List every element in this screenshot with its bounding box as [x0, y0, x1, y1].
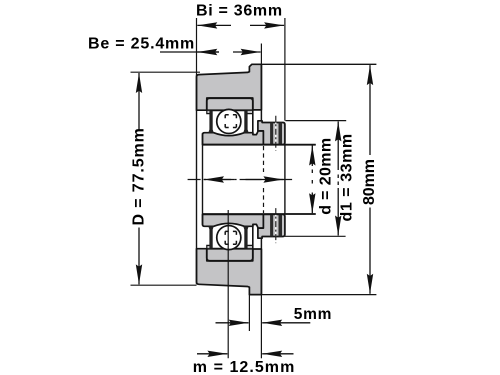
Be dimension line [160, 51, 261, 53]
seal upper left [208, 111, 213, 133]
Bi extension line left [196, 18, 198, 75]
collar silhouette through bore [284, 145, 286, 215]
Bi dimension line [197, 24, 284, 26]
5mm extension line left [248, 295, 250, 331]
svg-text:m = 12.5mm: m = 12.5mm [193, 359, 296, 375]
inner ring lower [203, 214, 264, 228]
Be extension line right [260, 44, 262, 65]
d1 extension lines [286, 120, 347, 122]
D dimension line [138, 73, 140, 284]
m extension line left (ball axis) [227, 210, 229, 358]
flange right face line [260, 64, 262, 120]
seal lower left [208, 227, 213, 249]
seal upper right [243, 111, 248, 133]
bore line lower [203, 213, 316, 215]
seal lower right [243, 227, 248, 249]
m dimension line [197, 353, 294, 355]
housing lower half [197, 249, 262, 295]
ball upper [217, 109, 241, 133]
width arrows at centerline [204, 179, 283, 181]
centerline [188, 179, 293, 181]
Bi extension line right [284, 18, 286, 121]
svg-text:D = 77.5mm: D = 77.5mm [131, 127, 148, 225]
80mm extension lines [252, 63, 377, 65]
svg-text:80mm: 80mm [361, 159, 378, 205]
outer ring lower [207, 224, 253, 260]
svg-text:Bi = 36mm: Bi = 36mm [196, 3, 283, 20]
set screw axis lower [275, 214, 277, 236]
housing left face line [196, 75, 198, 285]
5mm dimension line [216, 322, 311, 324]
sleeve end hidden line [263, 146, 265, 172]
svg-text:5mm: 5mm [294, 306, 332, 323]
d dimension line [311, 146, 313, 214]
inner ring upper [203, 131, 264, 145]
inner ring left face line [202, 133, 204, 225]
d extension lines [286, 144, 316, 146]
svg-text:d = 20mm: d = 20mm [318, 138, 335, 215]
ball lower [217, 226, 241, 250]
svg-text:d1 = 33mm: d1 = 33mm [339, 133, 356, 221]
housing upper half [197, 64, 262, 110]
d1 dimension line [337, 121, 339, 235]
set screw axis upper [275, 123, 277, 145]
bore line upper [203, 144, 316, 146]
outer ring upper [207, 98, 253, 134]
80mm dimension line [369, 65, 371, 294]
svg-text:Be = 25.4mm: Be = 25.4mm [88, 36, 195, 53]
m / 5mm extension line right [260, 295, 262, 359]
D extension lines [131, 71, 201, 73]
locking collar lower [258, 214, 285, 238]
locking collar upper [258, 121, 285, 145]
